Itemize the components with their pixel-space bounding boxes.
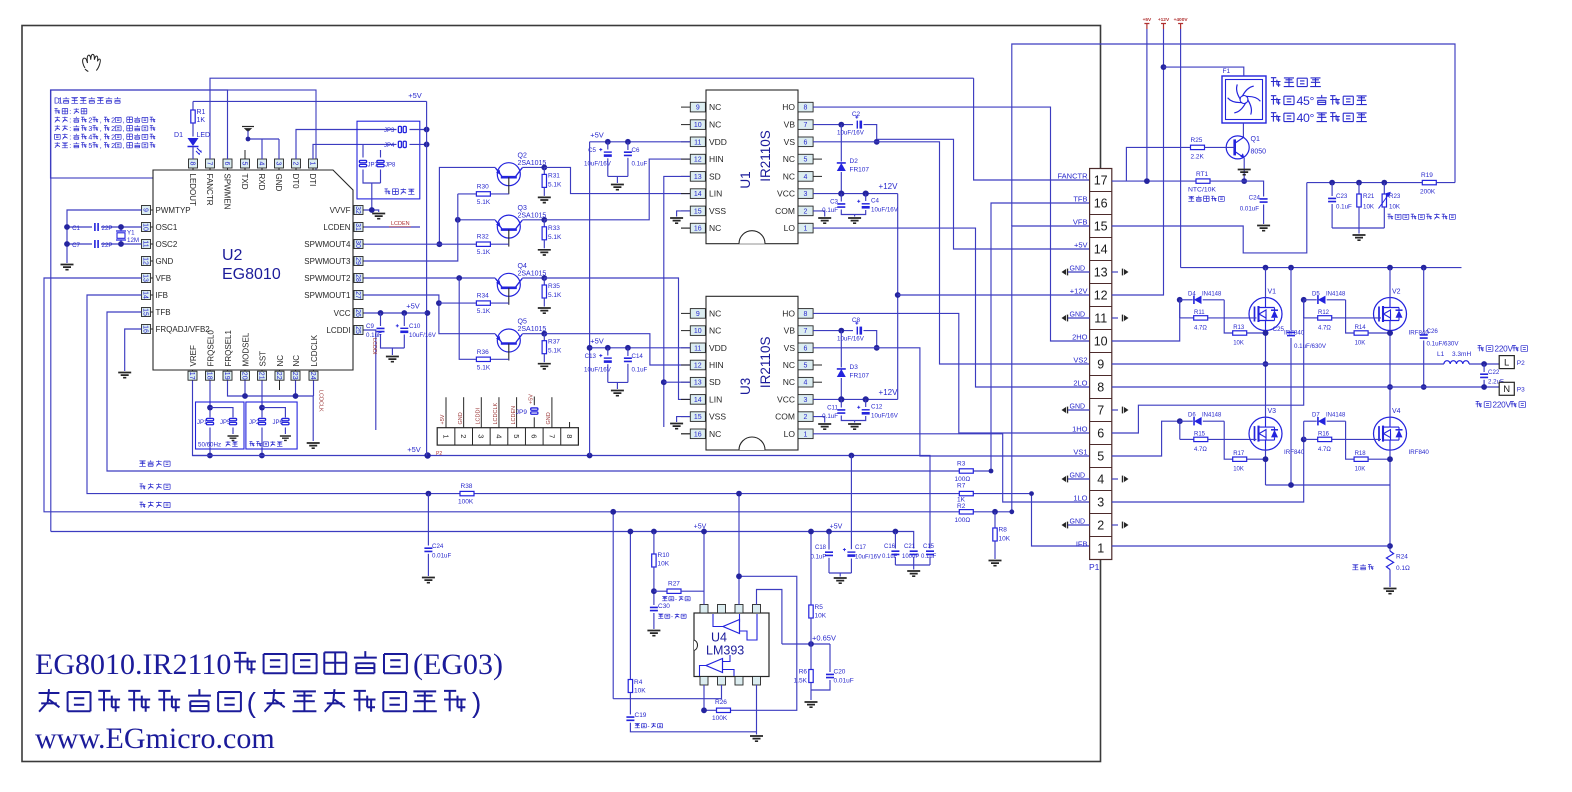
svg-text:C12: C12 (871, 404, 883, 411)
jumper JP6 (262, 408, 285, 418)
svg-text:C26: C26 (1427, 328, 1439, 335)
svg-text:25: 25 (354, 326, 361, 334)
capacitor C15 (929, 546, 931, 549)
wire +5V line mid (193, 456, 931, 547)
wire TFB to temperature feedback (107, 312, 991, 471)
svg-text:,: , (100, 125, 102, 133)
diode D6 IN4148 (1180, 420, 1193, 422)
svg-text:IRF840: IRF840 (1409, 449, 1430, 456)
resistor R24 constantan wire (1386, 551, 1393, 570)
ground R8 (989, 561, 1002, 566)
LED D1 (188, 138, 199, 146)
IC U1 IR2110S body (706, 90, 798, 244)
capacitor C11 (840, 399, 842, 407)
capacitor C26 bus (1423, 268, 1425, 333)
svg-text:D7: D7 (1312, 413, 1320, 419)
svg-text:13: 13 (141, 274, 148, 282)
svg-text:C19: C19 (635, 712, 647, 719)
svg-text:0.01uF: 0.01uF (1240, 206, 1259, 213)
ground FRQADJ (118, 373, 131, 378)
resistor R25 (1126, 147, 1190, 181)
wire 1HO to V2 gate network (1112, 300, 1304, 433)
capacitor C17 (850, 456, 852, 550)
svg-text:2: 2 (804, 208, 808, 215)
svg-text:IRF840: IRF840 (1284, 449, 1305, 456)
svg-text:7: 7 (1097, 404, 1104, 418)
U2 pin 9 PWMTYP (142, 209, 154, 211)
svg-text:5.1K: 5.1K (477, 364, 491, 371)
svg-text:R23: R23 (1389, 193, 1401, 200)
connector P1 (1090, 169, 1112, 560)
svg-text:R26: R26 (715, 699, 727, 706)
svg-text:10uF/16V: 10uF/16V (855, 555, 881, 561)
svg-text:10K: 10K (1233, 467, 1244, 473)
wire divider bottom (1332, 227, 1384, 229)
svg-text:+400V: +400V (1174, 17, 1189, 23)
resistor R2 (959, 510, 973, 514)
wire gate R12 (1346, 317, 1381, 319)
svg-text:4: 4 (804, 380, 808, 387)
svg-text:R18: R18 (1355, 451, 1367, 457)
wire 1LO to V4 gate network (1112, 439, 1304, 502)
wire bridge to shunt R24 (1389, 485, 1391, 551)
svg-text:NC: NC (709, 120, 721, 130)
svg-text:R35: R35 (548, 283, 560, 290)
svg-text:HIN: HIN (709, 154, 724, 164)
wire U4 pin4 to ground (756, 685, 758, 735)
ground R33 (538, 250, 551, 255)
svg-text:FRQSEL0: FRQSEL0 (206, 329, 215, 366)
U4 bottom pin 3 (718, 677, 726, 686)
svg-text:C3: C3 (830, 199, 838, 206)
capacitor C25 bus (1290, 268, 1292, 330)
svg-text:7: 7 (804, 122, 808, 129)
svg-text:2: 2 (111, 117, 115, 125)
svg-text:VFB: VFB (1073, 218, 1088, 227)
svg-text:10uF/16V: 10uF/16V (409, 332, 437, 339)
svg-text:LO: LO (784, 223, 796, 233)
wire gate R16 (1346, 438, 1381, 440)
ground C9 C10 (391, 348, 393, 355)
capacitor C10 (403, 313, 405, 326)
svg-text:3: 3 (88, 125, 92, 133)
svg-text:2: 2 (459, 434, 468, 438)
svg-text:0.01uF: 0.01uF (432, 553, 451, 560)
U3 pin 3 VCC (798, 395, 813, 405)
P1 pin 11 GND (1090, 306, 1112, 308)
svg-text:C7: C7 (72, 242, 80, 249)
ground C13 C14 (608, 381, 628, 383)
svg-text:NC: NC (783, 360, 795, 370)
U2 pin 15 TFB (142, 311, 154, 313)
wire +12V to fan (1164, 67, 1244, 76)
MOSFET V2 IRF840 (1374, 298, 1407, 331)
U1 pin16 stub (681, 227, 690, 229)
svg-text:12: 12 (141, 257, 148, 265)
svg-text:NTC/10K: NTC/10K (1188, 187, 1216, 194)
svg-text:NC: NC (709, 326, 721, 336)
svg-text:LIN: LIN (709, 394, 722, 404)
U2 pin 16 FRQADJ/VFB2 (142, 328, 154, 330)
P1 pin 9 VS2 (1090, 352, 1112, 354)
svg-text::: : (69, 134, 71, 142)
svg-text:DTI: DTI (308, 174, 317, 187)
wire FANCTR riser to P1 (974, 78, 1090, 180)
svg-text:0.1Ω: 0.1Ω (1396, 565, 1410, 572)
svg-text:R6: R6 (799, 669, 808, 676)
svg-text:11: 11 (141, 240, 148, 247)
wire +400V bus (1181, 267, 1462, 269)
wire jumpers to ground (363, 170, 381, 184)
svg-text:VREF: VREF (189, 345, 198, 366)
wire IFB to current feedback (87, 295, 1032, 494)
svg-text:7: 7 (804, 328, 808, 335)
wire +5V riser (589, 142, 591, 456)
capacitor C5 (607, 142, 609, 150)
svg-text:+5V: +5V (1143, 17, 1152, 23)
wire U3 VS to P1 VS1 (813, 348, 1090, 456)
wire FANCTR from U2 pin7 (210, 78, 974, 159)
svg-text:GND: GND (546, 412, 552, 424)
svg-text:6: 6 (804, 139, 808, 146)
svg-text:IFB: IFB (156, 291, 168, 300)
wire bridge bottom rail (1266, 484, 1391, 486)
svg-text:IN4148: IN4148 (1326, 413, 1346, 419)
wire Q2 collector to U1 LIN (544, 167, 690, 193)
svg-text:JP9: JP9 (516, 409, 528, 416)
wire U3 LO to P1 1LO (813, 434, 1090, 502)
svg-text:VSS: VSS (709, 412, 726, 422)
transistor Q5 2SA1015 (497, 329, 520, 352)
capacitor C12 (865, 399, 867, 407)
svg-text:FANCTR: FANCTR (1058, 172, 1089, 181)
svg-text:+5V: +5V (406, 302, 420, 311)
svg-text:C1: C1 (72, 225, 80, 232)
svg-text:2HO: 2HO (1072, 333, 1088, 342)
svg-text:3: 3 (477, 434, 486, 438)
svg-text:10uF/16V: 10uF/16V (871, 413, 899, 420)
ground U1 VSS (670, 218, 683, 223)
MOSFET V1 IRF840 (1249, 298, 1282, 331)
soft-start select box (246, 402, 297, 449)
capacitor C30 spare (650, 607, 658, 610)
svg-text:C30: C30 (658, 603, 670, 610)
resistor R18 gate-source (1346, 439, 1355, 459)
MOSFET V4 IRF840 (1374, 417, 1407, 450)
svg-text:+5V: +5V (407, 445, 421, 454)
ground crystal caps (61, 265, 74, 270)
thermistor RT1 line (1112, 180, 1196, 182)
ground at RXD/GND pins (242, 126, 254, 128)
wire +5V top rail (193, 100, 427, 102)
svg-text:LED: LED (197, 132, 211, 139)
frame border (22, 26, 1101, 762)
svg-text:IN4148: IN4148 (1202, 413, 1222, 419)
svg-text:8: 8 (1097, 381, 1104, 395)
resistor R19 (1422, 180, 1436, 184)
svg-text:V2: V2 (1392, 289, 1401, 296)
svg-text:TFB: TFB (1073, 195, 1087, 204)
svg-text:4: 4 (494, 434, 503, 438)
svg-text:FR107: FR107 (850, 373, 870, 380)
svg-text:11: 11 (694, 345, 701, 352)
wire Q4 emitter / SPWMOUT2 net (364, 277, 495, 279)
resistor R3 (959, 469, 973, 473)
wire U4 comparator feedback loop (731, 576, 797, 710)
connector JP9 header (437, 428, 578, 445)
wire VCC U2 (364, 312, 427, 314)
svg-text:30: 30 (354, 240, 361, 248)
svg-text:JP3: JP3 (384, 128, 395, 134)
capacitor C7 (101, 243, 142, 245)
svg-text:VB: VB (784, 326, 796, 336)
svg-text:RT1: RT1 (1196, 171, 1209, 178)
U3 pin 16 NC (681, 433, 690, 435)
wire Q2 emitter / SPWMOUT4 net (439, 167, 495, 244)
thermistor RT1 (1196, 179, 1210, 183)
svg-text:0.1uF: 0.1uF (811, 555, 827, 561)
IC U4 LM393 body (694, 613, 769, 677)
U2 pin 17 VREF (192, 370, 194, 381)
wire +5V vertical (426, 101, 428, 455)
wire gate R15 (1224, 438, 1256, 440)
svg-text:50/60Hz: 50/60Hz (198, 442, 221, 449)
resistor R31 pulldown (522, 166, 544, 168)
ground R35 (538, 308, 551, 313)
wire FRQSEL0 through JP1 (209, 381, 211, 418)
svg-text:+5V: +5V (1074, 241, 1088, 250)
svg-text:LCDEN: LCDEN (323, 223, 350, 232)
svg-text:+5V: +5V (440, 414, 446, 424)
diode D4 IN4148 (1180, 299, 1193, 301)
svg-text:10K: 10K (1363, 204, 1375, 211)
U2 EG8010 body (153, 170, 353, 370)
svg-text:(EG03): (EG03) (413, 648, 503, 681)
ground R37 (538, 364, 551, 369)
svg-text:15: 15 (694, 208, 702, 215)
svg-text:VS1: VS1 (1073, 448, 1087, 457)
U1 pin 2 COM (798, 206, 813, 216)
wire U1 VSS to ground (677, 211, 690, 217)
U2 pin 19 FRQSEL1 (227, 370, 229, 381)
U1 pin 11 VDD (681, 141, 690, 143)
svg-text:5.1K: 5.1K (477, 199, 491, 206)
svg-text:11: 11 (694, 139, 701, 146)
svg-text:+5V: +5V (408, 91, 422, 100)
U2 pin 1 DTI (312, 159, 314, 170)
svg-text:100K: 100K (458, 499, 474, 506)
resistor R13 gate-source (1224, 318, 1233, 333)
transistor Q4 2SA1015 (497, 273, 520, 296)
fan note text (1271, 78, 1321, 87)
wire +0.65V node (782, 643, 830, 645)
svg-text::: : (69, 108, 71, 116)
wire VS2 to L1 (1112, 363, 1444, 365)
U2 pin 4 RXD (261, 159, 263, 170)
diode D3 FR107 (840, 331, 842, 368)
wire U4 pin2 left (613, 685, 721, 699)
svg-text:8: 8 (804, 311, 808, 318)
svg-text:4: 4 (88, 134, 92, 142)
svg-text:IN4148: IN4148 (1202, 291, 1222, 297)
svg-text:JP1: JP1 (197, 420, 208, 426)
U1 pin 7 VB (798, 120, 813, 130)
capacitor C2 bootstrap U1 (813, 124, 853, 126)
P1 pin 3 1LO (1090, 490, 1112, 492)
U2 pin 31 LCDEN (353, 226, 364, 228)
svg-text:U4: U4 (711, 631, 727, 645)
svg-text:R3: R3 (957, 461, 966, 468)
svg-text:10K: 10K (1389, 204, 1401, 211)
svg-text:L1: L1 (1437, 351, 1445, 358)
svg-text:R5: R5 (815, 604, 824, 611)
ground C30 (647, 631, 660, 636)
wire U1 VCC +12V (813, 193, 898, 195)
svg-text:JP4: JP4 (384, 143, 395, 149)
svg-text:VDD: VDD (709, 137, 727, 147)
capacitor C22 (1483, 364, 1485, 372)
svg-text:GND: GND (156, 257, 174, 266)
P1 pin 4 GND (1090, 467, 1112, 469)
svg-text:R31: R31 (548, 172, 560, 179)
U2 pin 23 NC (295, 370, 297, 381)
wire V2 source to V4 drain / N (1389, 330, 1391, 418)
svg-text:SPWMEN: SPWMEN (222, 174, 231, 210)
svg-text:18: 18 (205, 372, 212, 380)
wire U4 pin8 to +5V (703, 532, 705, 605)
wire Q5 emitter / R34 / SPWMOUT1 net (364, 295, 495, 334)
ground U3 COM (818, 424, 831, 429)
wire Q3 emitter / R30 / SPWMOUT3 net (458, 219, 496, 221)
U3 pin 9 NC (681, 312, 690, 314)
svg-text:0.1uF: 0.1uF (632, 367, 648, 374)
svg-text:22P: 22P (102, 225, 113, 232)
svg-text:2: 2 (88, 117, 92, 125)
U1 pin 5 NC (798, 154, 813, 164)
U2 pin 25 LCDDI (353, 329, 364, 331)
U1 notch (739, 231, 765, 244)
svg-text:D2: D2 (850, 158, 859, 165)
resistor R7 (959, 491, 973, 495)
svg-text:14: 14 (1094, 243, 1108, 257)
svg-text:U3: U3 (738, 378, 753, 395)
U1 pin 3 VCC (798, 189, 813, 199)
svg-text:10: 10 (141, 223, 148, 231)
U3 pin 8 HO (798, 309, 813, 319)
svg-text:2: 2 (291, 162, 298, 166)
svg-text:SPWMOUT3: SPWMOUT3 (304, 257, 351, 266)
U4 top pin 6 (718, 605, 726, 614)
svg-text:5.1K: 5.1K (548, 348, 562, 355)
wire 2HO to V1 gate network (1112, 300, 1180, 341)
svg-text:VCC: VCC (777, 394, 795, 404)
wire U1 LO to P1 2LO (813, 228, 1090, 387)
svg-text:13: 13 (1094, 266, 1108, 280)
U2 pin 32 VVVF (353, 209, 364, 211)
svg-text:10K: 10K (815, 613, 827, 620)
resistor R6 (810, 644, 812, 670)
U3 pin 12 HIN (681, 364, 690, 366)
U3 pin 13 SD (681, 381, 690, 383)
svg-text:NC: NC (709, 429, 721, 439)
svg-text:0.1uF: 0.1uF (632, 161, 648, 168)
wire U4 pin1 to feedback (703, 685, 705, 710)
svg-text:+0.65V: +0.65V (812, 634, 836, 643)
svg-text:EG8010: EG8010 (222, 266, 281, 283)
U2 pin 2 DT0 (295, 159, 297, 170)
svg-text:V1: V1 (1268, 289, 1277, 296)
jumper JP8 (380, 150, 382, 158)
capacitor C24 thermistor filter (1243, 181, 1264, 196)
svg-text:LCDCLK: LCDCLK (318, 390, 324, 412)
svg-text:1: 1 (804, 431, 808, 438)
wire V1 source to V3 drain / VS2 (1265, 330, 1267, 418)
svg-text:C2: C2 (852, 111, 861, 118)
terminal P2 L (1499, 356, 1514, 369)
svg-text:NC: NC (783, 171, 795, 181)
wire TFB riser to P1 (991, 203, 1090, 471)
U2 pin5 TXD stub (244, 150, 246, 159)
U3 pin 7 VB (798, 326, 813, 336)
svg-text:V4: V4 (1392, 408, 1401, 415)
svg-text:C14: C14 (632, 353, 644, 360)
svg-text:0.1uF: 0.1uF (882, 554, 898, 560)
svg-text:21: 21 (257, 372, 264, 380)
svg-text:-: - (648, 723, 650, 730)
U2 pin 6 SPWMEN (227, 159, 229, 170)
svg-text:1: 1 (804, 226, 808, 233)
wire Q4 collector to U3 LIN (544, 278, 690, 399)
svg-text:°: ° (1310, 111, 1315, 125)
svg-text:R32: R32 (477, 234, 489, 241)
svg-text:SPWMOUT4: SPWMOUT4 (304, 240, 351, 249)
svg-text:NC: NC (709, 102, 721, 112)
capacitor C4 (865, 194, 867, 201)
svg-text:4.7Ω: 4.7Ω (1318, 447, 1331, 453)
svg-text:4.7Ω: 4.7Ω (1194, 325, 1207, 331)
ground U4 (750, 736, 763, 741)
svg-text:C23: C23 (1336, 193, 1348, 200)
capacitor C9 (380, 313, 382, 326)
wire Q3 collector to U1 HIN (544, 159, 690, 220)
ground Q1 (1238, 170, 1251, 175)
svg-text:VVVF: VVVF (330, 206, 351, 215)
svg-text:-: - (675, 596, 677, 603)
svg-text:15: 15 (694, 414, 702, 421)
svg-text:7: 7 (547, 434, 556, 438)
wire U3 HO to P1 1HO (813, 313, 1090, 433)
terminal P3 N (1499, 382, 1514, 395)
svg-text:JP2: JP2 (249, 420, 260, 426)
svg-text:C24: C24 (1249, 195, 1261, 202)
svg-text:COM: COM (775, 206, 795, 216)
U2 pin 18 FRQSEL0 (209, 370, 211, 381)
MOSFET V3 IRF840 (1249, 417, 1282, 450)
svg-text:VDD: VDD (709, 343, 727, 353)
U2 pin 21 SST (261, 370, 263, 381)
U2 pin22 NC stub (279, 381, 281, 391)
wire LCDDI (364, 330, 376, 430)
svg-text:°: ° (1310, 94, 1315, 108)
svg-text:LIN: LIN (709, 189, 722, 199)
jumper on JP9 pin6 (531, 408, 538, 410)
svg-text:VSS: VSS (709, 206, 726, 216)
svg-text:D4: D4 (1188, 291, 1196, 297)
svg-text:17: 17 (188, 372, 195, 380)
svg-text:10K: 10K (1355, 467, 1366, 473)
svg-text:+5V: +5V (830, 524, 843, 531)
svg-text:5: 5 (512, 434, 521, 438)
